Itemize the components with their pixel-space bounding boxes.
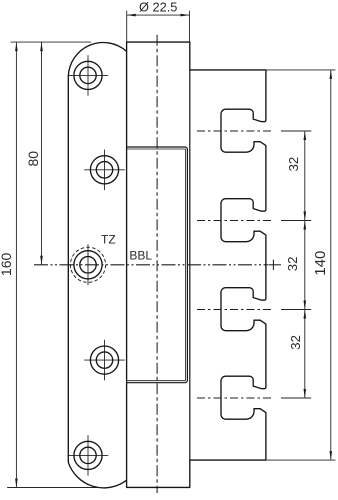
arrows 22.5 xyxy=(127,14,136,17)
svg-text:32: 32 xyxy=(288,335,303,350)
BBL centerline horizontal xyxy=(34,264,268,266)
arrows 140 xyxy=(330,70,333,79)
dimension 160 line xyxy=(15,42,17,487)
hinge leaf outline xyxy=(68,43,126,488)
arrows 32 dims xyxy=(304,131,307,140)
BBL end tick xyxy=(272,260,274,270)
dimension 32 line xyxy=(304,131,306,398)
hole 4 circles xyxy=(90,346,118,374)
dimension 22.5 line xyxy=(127,14,190,16)
dimension 80 line xyxy=(41,42,43,265)
svg-text:BBL: BBL xyxy=(129,249,152,263)
hole 5 crosshair xyxy=(68,454,109,456)
pin centerline vertical xyxy=(156,35,158,493)
dimension 140 line xyxy=(330,70,332,460)
svg-text:TZ: TZ xyxy=(101,232,116,246)
svg-text:Ø 22.5: Ø 22.5 xyxy=(139,0,177,15)
extension line top edge left xyxy=(11,41,91,43)
svg-text:32: 32 xyxy=(286,157,301,172)
arrows 80 xyxy=(40,42,43,51)
extension lines notch centers xyxy=(281,130,311,132)
knuckle internal edge xyxy=(189,70,191,460)
notch centerlines xyxy=(197,130,274,132)
svg-text:140: 140 xyxy=(312,251,329,276)
hole 2 crosshair xyxy=(84,169,125,171)
second leaf rectangle xyxy=(127,147,188,383)
hole 2 circles xyxy=(90,156,118,184)
svg-text:160: 160 xyxy=(0,253,14,277)
hole 5 circles xyxy=(74,441,102,469)
svg-text:80: 80 xyxy=(25,151,41,167)
hole 4 crosshair xyxy=(84,359,125,361)
second leaf inner offset xyxy=(127,149,185,381)
frame part outline with notches xyxy=(127,42,266,487)
TZ dashed circle xyxy=(70,247,105,282)
svg-text:32: 32 xyxy=(285,257,300,272)
hole 1 circles xyxy=(74,61,102,89)
hole TZ circles xyxy=(74,251,102,279)
hole TZ vertical crosshair xyxy=(87,244,89,285)
hole 1 crosshair xyxy=(68,74,109,76)
arrows 160 xyxy=(15,42,18,51)
extension line bottom edge left xyxy=(7,487,97,489)
